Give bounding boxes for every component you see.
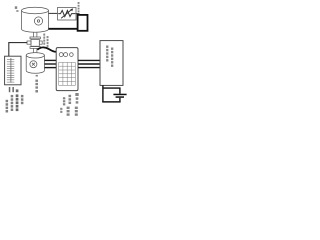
indicator lamps — [59, 53, 73, 57]
motor cylinder — [26, 53, 44, 74]
battery loop wire left — [102, 85, 104, 102]
bus controller to power box (3 lines) — [78, 60, 100, 67]
wiper arrow — [61, 9, 72, 18]
controller / inverter box — [56, 48, 78, 91]
battery loop wire right upper — [104, 88, 120, 94]
strain gauge / potentiometer box — [58, 8, 77, 21]
lower shaft — [34, 49, 37, 53]
battery loop wire bottom — [102, 101, 120, 103]
caption vertical text col2 — [11, 95, 14, 111]
legend text block col1 lower — [67, 107, 70, 116]
caption vertical text col1 — [6, 100, 9, 113]
keypad grid — [59, 62, 76, 85]
caption vertical text col3 — [16, 94, 19, 111]
shaft part labels vertical text — [43, 34, 48, 48]
legend text block col0 upper — [63, 97, 65, 105]
battery loop wire right lower — [119, 98, 121, 102]
caption vertical text col4 — [21, 95, 24, 104]
legend text block col0 lower — [60, 108, 62, 113]
battery short plate — [116, 96, 124, 98]
vessel cylinder (stirred tank) — [22, 7, 49, 32]
wire vessel to strain gauge — [49, 12, 58, 14]
sensor label vertical text — [78, 2, 80, 12]
power supply box — [100, 41, 123, 86]
legend text block col2 lower — [75, 107, 78, 116]
indicator / recorder box — [5, 56, 21, 85]
power box vertical label col2 — [111, 48, 113, 67]
power cable curve — [37, 47, 56, 51]
power box vertical label col1 — [106, 46, 108, 62]
lower flange — [30, 47, 40, 49]
recorder scale ticks — [7, 60, 14, 83]
motor label vertical text — [35, 75, 38, 93]
signal wire sensor to indicator — [9, 43, 27, 57]
vessel label text — [15, 6, 19, 12]
wire strain gauge to amplifier box — [76, 13, 80, 15]
upper flange — [30, 37, 40, 39]
motor face circle with cross — [30, 61, 37, 68]
upper shaft — [34, 32, 37, 37]
battery long plate — [113, 94, 126, 96]
bus motor to controller (3 lines) — [45, 60, 57, 67]
amplifier box (thick border) — [78, 15, 88, 31]
indicator label text — [9, 87, 19, 92]
legend text block col2 upper — [75, 93, 78, 104]
torque sensor block — [31, 39, 39, 46]
sensor left tab — [27, 41, 31, 44]
sensor right tab — [39, 41, 42, 44]
recorder scale centre line — [10, 58, 12, 83]
legend text block col1 upper — [69, 95, 72, 104]
resistor zigzag — [58, 10, 75, 16]
thick wire vessel to amplifier — [49, 28, 78, 30]
vessel front port circle — [34, 17, 42, 25]
